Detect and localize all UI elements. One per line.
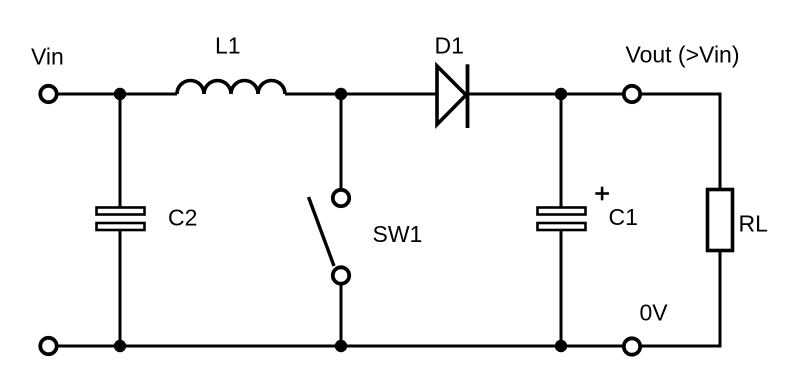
svg-text:Vout (>Vin): Vout (>Vin) [626,42,740,68]
wire: top rail from Vin terminal to inductor [58,93,177,96]
node junction bottom-right [555,340,567,352]
svg-text:Vin: Vin [31,44,64,70]
label + (C1 polarity) [595,187,609,201]
wire: switch column upper segment [340,94,343,188]
capacitor C2 [97,208,145,231]
wire: top rail from Vout terminal to top-right corner [642,93,722,96]
wire: bottom rail from bottom-left terminal to 0V terminal [58,345,622,348]
wire: right rail from top corner down to RL [719,93,722,191]
svg-text:SW1: SW1 [373,221,423,247]
diode D1 [437,64,468,128]
capacitor C1 [538,208,586,231]
wire: bottom rail from 0V terminal to bottom-right corner [642,345,722,348]
terminal bottom-left [40,338,56,354]
wire: C2 column upper segment [119,94,122,208]
svg-text:L1: L1 [215,33,241,59]
wire: top rail from diode cathode to Vout terminal [467,93,622,96]
terminal 0V [624,338,640,354]
svg-text:C1: C1 [609,204,638,230]
wire: C1 column lower segment [560,229,563,346]
wire: C2 column lower segment [119,229,122,346]
node junction bottom-left [114,340,126,352]
svg-text:D1: D1 [435,33,464,59]
wire: right rail from RL down to bottom corner [719,250,722,348]
svg-text:0V: 0V [640,300,669,326]
svg-text:C2: C2 [168,205,197,231]
wire: switch column lower segment [340,285,343,346]
inductor L1 [177,81,285,95]
resistor RL [708,190,733,251]
terminal Vin [40,86,56,102]
switch SW1 [309,190,350,284]
node junction bottom-middle [335,340,347,352]
wire: top rail from inductor to diode anode [285,93,437,96]
wire: C1 column upper segment [560,94,563,208]
svg-text:RL: RL [739,211,769,237]
node junction top-left [114,88,126,100]
terminal Vout [624,86,640,102]
node junction top-middle [335,88,347,100]
node junction top-right [555,88,567,100]
